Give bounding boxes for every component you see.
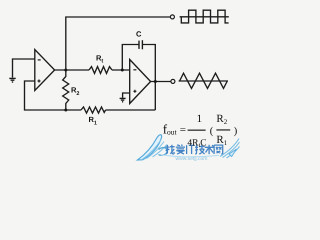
capacitor C plates [141,40,143,49]
junction: U1 output node [64,69,67,72]
wire: ground to op-amp U1 inverting input [13,59,35,78]
svg-text:=: = [180,124,186,136]
triangle wave trace [180,73,228,88]
svg-text:www.5etjj.com: www.5etjj.com [176,156,208,162]
爱 [176,145,185,155]
wire: R1 to right vertical [106,109,156,111]
wire: U2 output to triangle output [151,81,171,83]
我 [165,145,174,154]
wire: C left plate to U2 inverting input [122,45,139,71]
wire: U1 output node up to square-wave output [66,17,170,70]
fraction bar 1 [188,130,206,131]
square wave trace [181,10,228,23]
watermark right wing [220,139,240,159]
ground (left) [9,77,15,79]
svg-text:): ) [234,126,238,137]
wire: U2 + input to ground [123,93,130,98]
formula f_out = 1/(4RtC) (R2/R1) [163,113,238,149]
U2 minus sign [133,69,136,71]
square wave axis [180,16,229,18]
T [189,145,195,154]
wire: Rt to U2 inverting input [112,69,130,71]
junction: R2 bottom node [64,109,67,112]
watermark chinese text (vector strokes: 我爱IT技术网) [165,145,222,155]
op-amp U1 [35,50,55,91]
terminal circle: triangle-wave output [171,79,175,83]
wire: U1 output [55,69,89,71]
watermark wings logo [138,135,220,160]
技 [195,145,205,154]
op-amp U2 [130,60,151,104]
I [186,145,188,154]
svg-text:4RtC: 4RtC [187,139,206,150]
triangle wave axis [179,80,228,82]
U1 minus sign [38,59,41,61]
svg-text:C: C [136,30,142,39]
resistor R1 [81,107,106,113]
junction: U2 output node [154,80,157,83]
svg-text:out: out [167,128,178,137]
terminal circle: square-wave output [170,15,174,19]
resistor R2 [63,70,69,110]
wire: U1 + input to feedback node [25,81,82,110]
wire: right vertical (integrator output to C and R1) [143,45,156,111]
junction: U2 inverting input node [121,69,124,72]
U1 plus sign [38,80,41,83]
网 [214,145,223,154]
术 [205,145,214,154]
svg-text:1: 1 [197,113,203,125]
ground (U2) [120,97,126,99]
resistor Rt [89,67,112,74]
fraction bar 2 [216,129,230,130]
U2 plus sign [133,90,136,93]
svg-text:(: ( [210,126,214,137]
